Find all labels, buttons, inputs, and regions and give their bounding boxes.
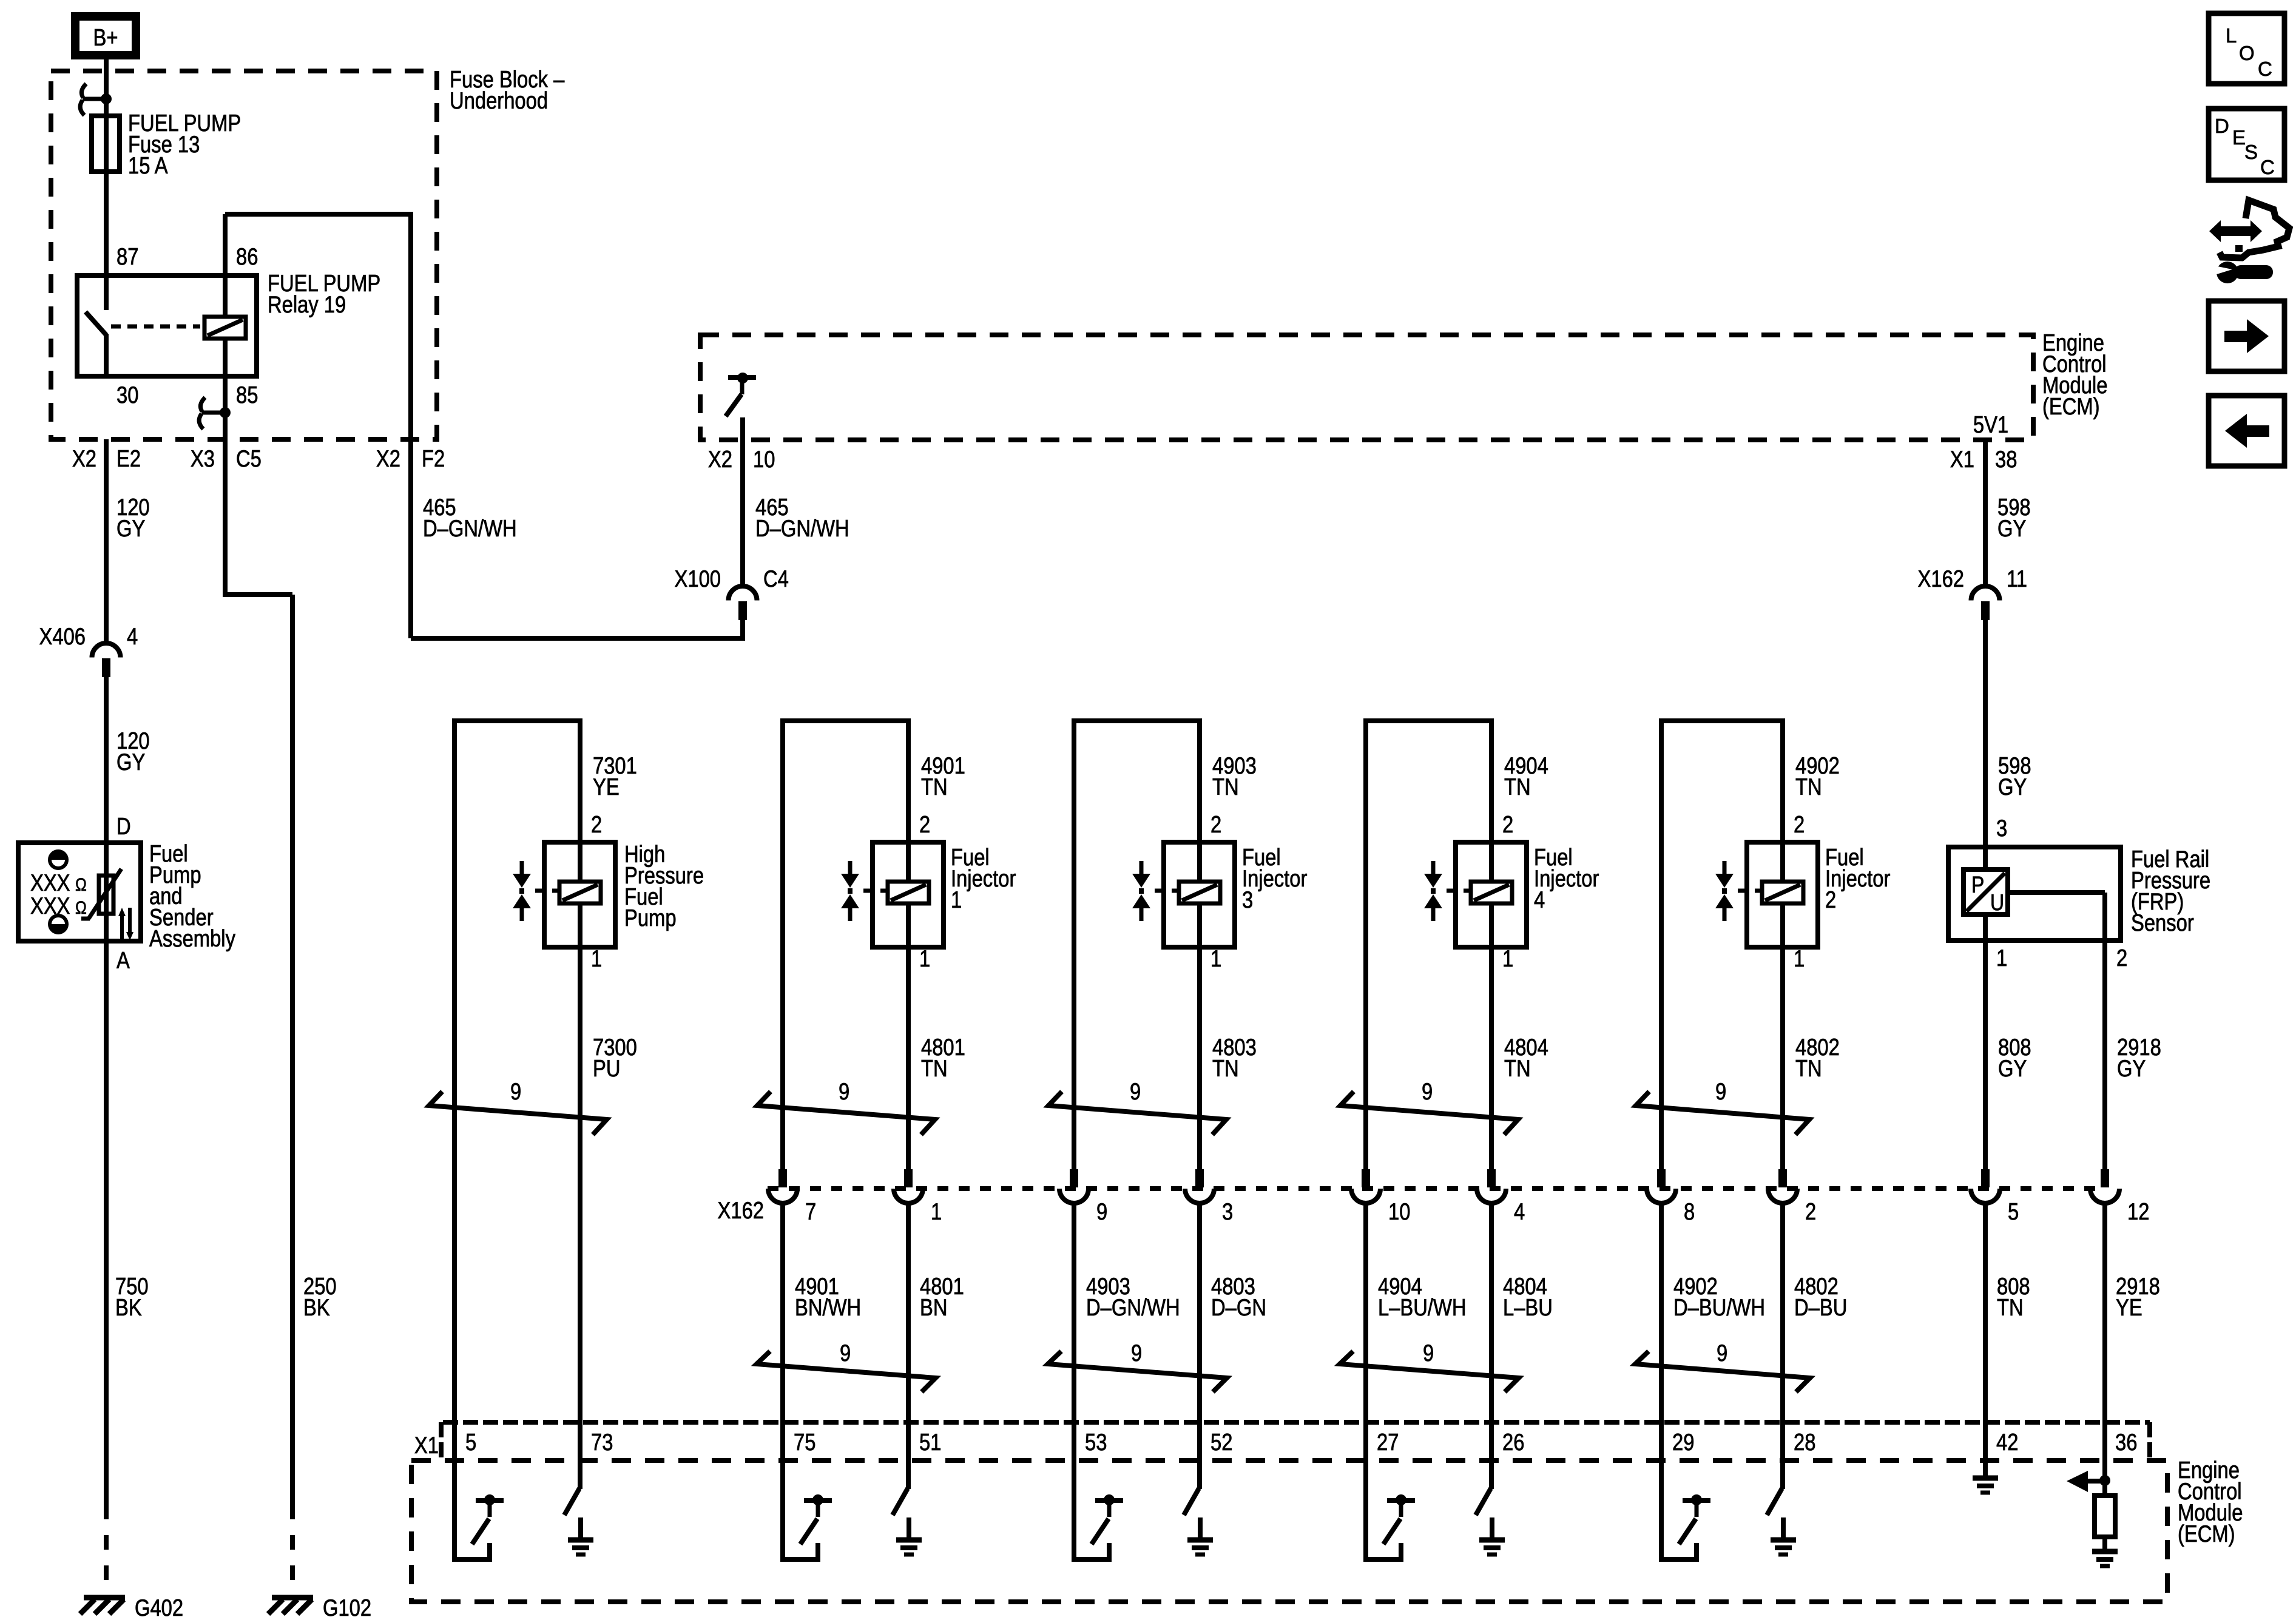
- inline connector X162 right: [1195, 1169, 1204, 1187]
- solenoid coil: [1762, 882, 1803, 903]
- wire - pin1 down: [1489, 947, 1494, 1172]
- wire - right leg below X162: [1197, 1203, 1202, 1425]
- svg-text:C: C: [2260, 156, 2275, 178]
- svg-text:Fuse Block –Underhood: Fuse Block –Underhood: [450, 66, 564, 113]
- valve symbol: [520, 861, 524, 875]
- svg-text:808GY: 808GY: [1998, 1033, 2031, 1081]
- signal arrow: [2088, 1479, 2105, 1484]
- engine control module bottom dashed box: [411, 1460, 2167, 1602]
- svg-text:E: E: [2232, 126, 2246, 149]
- svg-text:1: 1: [931, 1198, 942, 1224]
- splice loop 9 lower: [1048, 1351, 1227, 1392]
- svg-text:29: 29: [1672, 1428, 1694, 1455]
- inline connector X100 C4: [729, 586, 757, 601]
- svg-text:X2: X2: [376, 445, 400, 471]
- relay coil: [204, 317, 246, 339]
- wire - X1 38 down: [1983, 440, 1988, 586]
- svg-text:36: 36: [2115, 1428, 2137, 1455]
- svg-text:42: 42: [1996, 1428, 2018, 1455]
- svg-text:75: 75: [794, 1428, 815, 1455]
- inline connector X162 pin 11: [1971, 586, 2000, 601]
- icon next arrow box: [2209, 301, 2284, 371]
- valve-coil link: [863, 889, 873, 893]
- wire - right leg above X162: [1489, 1169, 1494, 1172]
- solenoid coil: [888, 882, 929, 903]
- svg-text:87: 87: [116, 243, 138, 269]
- svg-text:EngineControlModule(ECM): EngineControlModule(ECM): [2042, 329, 2107, 419]
- svg-text:X2: X2: [708, 445, 732, 472]
- svg-text:X162: X162: [1918, 565, 1964, 592]
- X1 band left tick: [439, 1422, 444, 1462]
- resistor: [2095, 1496, 2115, 1537]
- svg-text:5: 5: [465, 1428, 476, 1455]
- svg-text:10: 10: [1388, 1198, 1410, 1224]
- wire through sensor pin3 to pin1: [1983, 847, 1988, 869]
- svg-text:53: 53: [1085, 1428, 1107, 1455]
- wire - pin2 feed: [578, 721, 582, 881]
- wire - pin1 down: [1197, 947, 1202, 1172]
- svg-text:P: P: [1971, 872, 1984, 897]
- ECM ground switch: [906, 1422, 911, 1489]
- ECM driver switch: [1363, 1422, 1368, 1562]
- icon back arrow box: [2209, 396, 2284, 466]
- svg-text:G402: G402: [135, 1594, 183, 1617]
- wire - feed loop top: [1363, 718, 1494, 723]
- wire - to FRP sensor pin 3: [1983, 619, 1988, 847]
- wire - pin2 feed: [1197, 721, 1202, 881]
- icon vehicle with double arrow and wrench: [2220, 226, 2251, 236]
- wire - left leg below X162: [1659, 1203, 1664, 1425]
- wire - right leg above X162: [1780, 1169, 1785, 1172]
- wire - pin2 feed: [1489, 721, 1494, 881]
- svg-text:9: 9: [1130, 1078, 1141, 1104]
- svg-text:8: 8: [1684, 1198, 1695, 1224]
- wire - feed loop left leg: [452, 718, 457, 1425]
- svg-text:598GY: 598GY: [1998, 752, 2031, 800]
- svg-text:X3: X3: [191, 445, 215, 471]
- sender variable resistor: [99, 876, 113, 914]
- valve-coil link: [535, 889, 544, 893]
- relay switch pin 30 stub: [104, 334, 109, 376]
- svg-text:9: 9: [1717, 1339, 1727, 1366]
- ECM ground switch: [578, 1422, 582, 1489]
- svg-text:2: 2: [1502, 811, 1513, 837]
- svg-text:9: 9: [1715, 1078, 1726, 1104]
- svg-text:2: 2: [1805, 1198, 1816, 1224]
- solenoid coil: [1471, 882, 1512, 903]
- sender float circle: [50, 916, 67, 933]
- wire - solenoid to pin 1: [1780, 904, 1785, 947]
- inline connector X162 pin 12: [2101, 1169, 2109, 1187]
- svg-text:86: 86: [236, 243, 258, 269]
- wire - relay 86 to coil: [223, 214, 228, 317]
- wire - E2 down to X406: [104, 439, 109, 644]
- svg-text:11: 11: [2007, 565, 2027, 592]
- inline connector X162 right: [904, 1169, 913, 1187]
- wire - solenoid to pin 1: [906, 904, 911, 947]
- relay switch blade: [86, 312, 106, 335]
- icon LOC box: [2209, 13, 2284, 84]
- connector band X1 dotted line: [443, 1420, 2150, 1425]
- wire - below X162 to X1 42: [1983, 1203, 1988, 1422]
- svg-text:X406: X406: [39, 623, 86, 649]
- valve symbol: [1140, 861, 1144, 875]
- wire - left leg to ECM switch (no X162): [578, 1172, 582, 1422]
- svg-text:B+: B+: [93, 24, 118, 50]
- wire - X100 to C4 stub: [740, 619, 745, 641]
- ECM ground switch: [1489, 1422, 1494, 1489]
- wire - left leg below X162: [1072, 1203, 1076, 1425]
- svg-text:1: 1: [1210, 945, 1221, 971]
- svg-text:3: 3: [1996, 814, 2007, 841]
- svg-text:5V1: 5V1: [1973, 411, 2008, 437]
- svg-text:C: C: [2258, 58, 2272, 80]
- ground G402: [84, 1595, 125, 1601]
- component box: [1747, 842, 1818, 947]
- svg-text:D: D: [116, 812, 131, 839]
- svg-text:2: 2: [1210, 811, 1221, 837]
- fuse FUEL PUMP Fuse 13 15A: [92, 116, 120, 172]
- splice loop 9 upper: [1340, 1092, 1518, 1135]
- component box: [1456, 842, 1527, 947]
- svg-text:2: 2: [919, 811, 930, 837]
- wire - dashed to G102: [290, 1519, 295, 1596]
- svg-text:85: 85: [236, 381, 258, 408]
- wire - coil to 85: [223, 339, 228, 439]
- svg-text:2: 2: [1794, 811, 1805, 837]
- valve-coil link: [1738, 889, 1747, 893]
- wire - left leg below X162: [780, 1203, 785, 1425]
- svg-text:A: A: [116, 947, 130, 973]
- fuel pump and sender assembly box: [18, 843, 141, 941]
- ground bars: [2092, 1549, 2118, 1555]
- wire - solenoid to pin 1: [1197, 904, 1202, 947]
- ECM ground switch: [1780, 1422, 1785, 1489]
- svg-text:1: 1: [591, 945, 602, 971]
- wire - FRP pin1 down 808: [1983, 940, 1988, 1172]
- ECM internal ground for 42: [1983, 1422, 1988, 1478]
- wire - right leg below X162: [906, 1203, 911, 1425]
- svg-text:52: 52: [1210, 1428, 1232, 1455]
- wire - C4 up to ECM X2 pin 10: [740, 440, 745, 586]
- inline connector X162 left: [778, 1169, 787, 1187]
- battery feed B+ box: [71, 12, 140, 59]
- splice loop 9 upper: [1048, 1092, 1226, 1135]
- splice loop 9 upper: [757, 1092, 935, 1135]
- valve symbol: [848, 861, 853, 875]
- inline connector X162 left: [1657, 1169, 1666, 1187]
- svg-text:9: 9: [510, 1078, 521, 1104]
- inline connector X162 left: [1070, 1169, 1078, 1187]
- svg-text:EngineControlModule(ECM): EngineControlModule(ECM): [2178, 1456, 2243, 1547]
- inline connector X162 left: [1362, 1169, 1370, 1187]
- svg-text:XXX: XXX: [30, 892, 70, 919]
- wire - left leg below X162: [1363, 1203, 1368, 1425]
- ECM driver switch: [1659, 1422, 1664, 1562]
- svg-text:10: 10: [753, 445, 775, 472]
- svg-text:9: 9: [1422, 1078, 1433, 1104]
- wire - down to G102 (250 BK): [290, 595, 295, 1519]
- wire - X406 to fuel pump pin D: [104, 677, 109, 843]
- svg-text:G102: G102: [323, 1594, 371, 1617]
- wire - resistor to ground: [2102, 1537, 2107, 1551]
- wire - feed loop top: [780, 718, 911, 723]
- svg-text:9: 9: [839, 1078, 849, 1104]
- wire - pin1 down: [906, 947, 911, 1172]
- component box: [1164, 842, 1235, 947]
- splice loop 9 lower: [1340, 1351, 1519, 1392]
- svg-text:Ω: Ω: [75, 874, 87, 895]
- FRP P/U transducer square: [1963, 869, 2008, 914]
- wire - below X162 to X1 36: [2102, 1203, 2107, 1422]
- wire - C5 down: [223, 439, 228, 597]
- wire - right leg above X162: [1197, 1169, 1202, 1172]
- wire - solenoid to pin 1: [1489, 904, 1494, 947]
- relay actuator dashed link: [111, 325, 200, 329]
- svg-text:S: S: [2244, 141, 2258, 163]
- svg-text:26: 26: [1502, 1428, 1524, 1455]
- svg-text:120GY: 120GY: [116, 727, 150, 775]
- pump motor circle: [50, 851, 67, 868]
- svg-text:598GY: 598GY: [1997, 493, 2031, 541]
- wire - 86 loop top: [225, 212, 411, 217]
- svg-text:D: D: [2215, 115, 2229, 137]
- svg-text:1: 1: [1502, 945, 1513, 971]
- svg-text:U: U: [1990, 890, 2004, 915]
- wire - feed loop top: [452, 718, 582, 723]
- svg-text:28: 28: [1794, 1428, 1815, 1455]
- wire - solenoid to pin 1: [578, 904, 582, 947]
- svg-text:30: 30: [116, 381, 138, 408]
- svg-text:X1: X1: [1950, 445, 1974, 472]
- wire - feed loop left leg: [1072, 718, 1076, 1172]
- wire - feed loop top: [1659, 718, 1785, 723]
- solenoid coil: [1179, 882, 1220, 903]
- wire - jog right: [225, 592, 292, 597]
- connector band X162 dotted line: [768, 1186, 2104, 1191]
- ECM internal pull-up for 36: [2102, 1422, 2107, 1496]
- wire - pin A down (750 BK): [104, 941, 109, 1519]
- svg-text:1: 1: [1794, 945, 1805, 971]
- svg-text:9: 9: [1423, 1339, 1434, 1366]
- svg-text:1: 1: [919, 945, 930, 971]
- wire - pin1 down: [1780, 947, 1785, 1172]
- svg-text:12: 12: [2127, 1198, 2149, 1224]
- valve-coil link: [1447, 889, 1456, 893]
- svg-text:C5: C5: [236, 445, 262, 471]
- svg-text:4: 4: [1514, 1198, 1525, 1224]
- ground G102: [272, 1595, 313, 1601]
- svg-text:X1: X1: [414, 1431, 439, 1458]
- inline connector X162 pin 5: [1981, 1169, 1990, 1187]
- splice loop 9 lower: [1635, 1351, 1810, 1392]
- ECM driver switch: [1072, 1422, 1076, 1562]
- wire - feed loop left leg: [780, 718, 785, 1172]
- relay switch pin 87 stub: [104, 275, 109, 310]
- svg-text:O: O: [2239, 42, 2255, 64]
- wire - right leg above X162: [906, 1169, 911, 1172]
- svg-text:2: 2: [591, 811, 602, 837]
- terminal clip at relay 85: [201, 411, 225, 415]
- valve symbol: [1431, 861, 1436, 875]
- wire - dashed to G402: [104, 1519, 109, 1596]
- svg-text:27: 27: [1377, 1428, 1399, 1455]
- wire - pin1 down: [578, 947, 582, 1172]
- svg-text:2: 2: [2116, 944, 2127, 971]
- svg-text:X100: X100: [675, 565, 721, 592]
- wire - transducer to pin 2: [2008, 890, 2105, 895]
- svg-text:1: 1: [1996, 944, 2007, 971]
- svg-text:9: 9: [840, 1339, 851, 1366]
- splice loop 9 lower: [757, 1351, 936, 1392]
- svg-text:E2: E2: [116, 445, 141, 471]
- svg-text:X162: X162: [718, 1197, 764, 1223]
- svg-text:Ω: Ω: [75, 897, 87, 918]
- svg-text:7: 7: [805, 1198, 816, 1224]
- svg-text:5: 5: [2008, 1198, 2019, 1224]
- svg-text:120GY: 120GY: [116, 493, 150, 541]
- wire - 86 loop down to F2: [408, 212, 413, 638]
- solenoid coil: [559, 882, 601, 903]
- fuel level arrows: [120, 913, 124, 940]
- wire - feed loop left leg: [1659, 718, 1664, 1172]
- ECM driver switch: [780, 1422, 785, 1562]
- fuse block underhood dashed box: [51, 71, 437, 439]
- wire - right leg below X162: [1489, 1203, 1494, 1425]
- inline connector X406 pin 4: [92, 643, 121, 657]
- svg-text:9: 9: [1131, 1339, 1142, 1366]
- terminal clip at fuse feed: [83, 97, 106, 101]
- wire - right leg below X162: [1780, 1203, 1785, 1425]
- ECM fuel pump driver switch: [737, 373, 748, 383]
- wire - feed loop left leg: [1363, 718, 1368, 1172]
- ECM driver switch: [452, 1422, 457, 1562]
- wire - pin2 feed: [1780, 721, 1785, 881]
- X1 band right tick: [2147, 1422, 2152, 1462]
- wire through fuel pump assembly: [104, 843, 109, 941]
- wire - horizontal to X100: [411, 636, 743, 641]
- wire - feed loop top: [1072, 718, 1202, 723]
- valve-coil link: [1155, 889, 1164, 893]
- splice loop 9 upper: [1636, 1092, 1809, 1135]
- component box: [544, 842, 615, 947]
- svg-text:38: 38: [1995, 445, 2017, 472]
- svg-text:F2: F2: [422, 445, 445, 471]
- svg-text:X2: X2: [72, 445, 96, 471]
- inline connector X162 right: [1487, 1169, 1496, 1187]
- inline connector X162 right: [1778, 1169, 1787, 1187]
- splice loop 9 upper: [429, 1092, 607, 1135]
- engine control module top dashed box: [700, 335, 2033, 440]
- relay box FUEL PUMP Relay 19: [77, 275, 257, 376]
- svg-text:4804L–BU: 4804L–BU: [1503, 1272, 1553, 1320]
- svg-text:3: 3: [1222, 1198, 1233, 1224]
- svg-text:4: 4: [127, 623, 138, 649]
- svg-text:L: L: [2226, 24, 2237, 47]
- svg-text:73: 73: [591, 1428, 613, 1455]
- component box: [873, 842, 944, 947]
- ECM ground switch: [1197, 1422, 1202, 1489]
- wire - pin2 feed: [906, 721, 911, 881]
- wire - B+ to fuse: [104, 59, 109, 275]
- wire - FRP pin2 down 2918: [2102, 940, 2107, 1172]
- svg-text:C4: C4: [763, 565, 789, 592]
- valve symbol: [1723, 861, 1727, 875]
- fuel rail pressure FRP sensor box: [1948, 847, 2121, 940]
- svg-text:51: 51: [919, 1428, 941, 1455]
- svg-text:9: 9: [1096, 1198, 1107, 1224]
- icon DESC box: [2209, 109, 2284, 180]
